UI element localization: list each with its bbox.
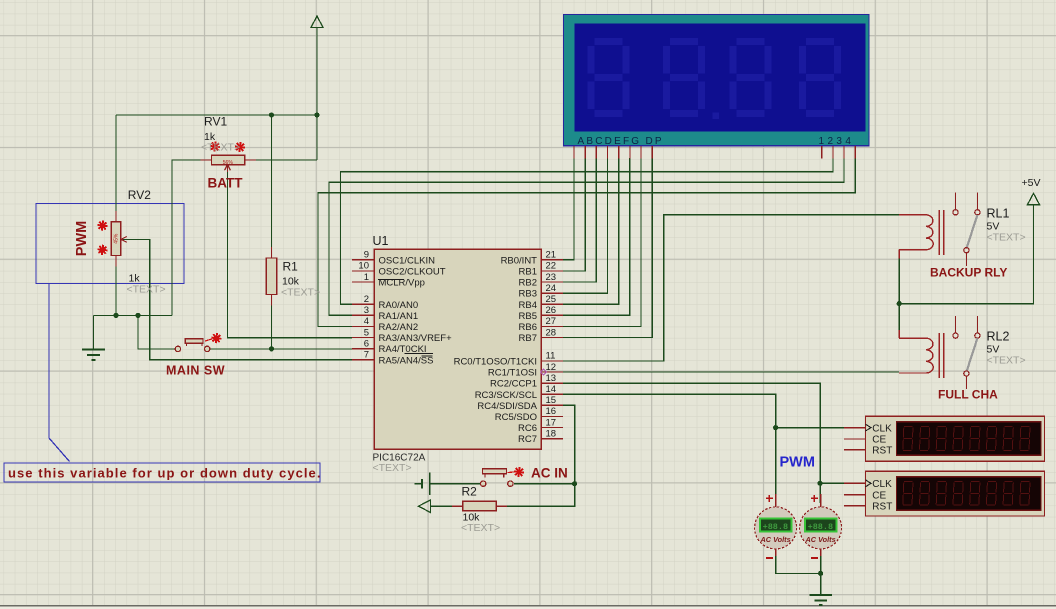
svg-text:<TEXT>: <TEXT> — [987, 231, 1026, 243]
wire RV2 top lead — [115, 115, 117, 213]
pin 1 (MCLR/Vpp) — [352, 272, 425, 289]
wire battery left stub — [415, 483, 422, 485]
pin 10 (OSC2/CLKOUT) — [352, 261, 446, 278]
T0CKI underline — [405, 353, 434, 355]
power terminal +5V — [1028, 193, 1040, 204]
wire switch drop to MAIN SW — [138, 315, 175, 349]
display ghost digit 2 — [667, 42, 702, 114]
pin 5 (RA3/AN3/VREF+) — [352, 327, 452, 344]
counter 2 ghost digit 6 — [986, 482, 996, 506]
svg-text:RA2/AN2: RA2/AN2 — [379, 322, 419, 333]
display ghost digit 3 — [733, 42, 768, 114]
svg-text:AC Volts: AC Volts — [805, 535, 836, 544]
svg-text:RV1: RV1 — [204, 115, 227, 129]
wire RV1 right link — [255, 159, 317, 161]
battery cell (AC source) — [422, 473, 430, 495]
relay RL2 coil — [899, 330, 933, 373]
display pin digit 1 — [821, 146, 823, 159]
svg-text:MAIN SW: MAIN SW — [166, 364, 225, 378]
svg-text:12: 12 — [546, 362, 557, 373]
svg-text:28: 28 — [546, 327, 557, 338]
display pin segment A — [573, 146, 575, 159]
wire +5V node to RL2 coil top — [898, 304, 900, 331]
pin 6 (RA4/T0CKI) — [352, 338, 427, 355]
switch MAIN SW (push button) — [175, 339, 212, 352]
svg-text:use this variable for up or do: use this variable for up or down duty cy… — [8, 466, 321, 481]
svg-text:7: 7 — [364, 350, 369, 361]
svg-text:<TEXT>: <TEXT> — [461, 522, 500, 534]
counter 1 ghost digit 6 — [986, 427, 996, 451]
wire net RC0 to RL1 coil — [563, 215, 899, 361]
svg-text:6: 6 — [364, 338, 369, 349]
marker RV2 down — [97, 245, 107, 255]
wire net RB0 to display segment A — [563, 158, 574, 260]
potentiometer RV1 — [201, 155, 256, 172]
svg-text:17: 17 — [546, 417, 557, 428]
voltmeter 1 minus sign — [766, 557, 773, 559]
node voltmeter ground junction — [818, 571, 823, 576]
svg-text:RL2: RL2 — [987, 330, 1010, 344]
canvas bottom edge — [0, 606, 1056, 609]
wire ground rail — [94, 314, 173, 316]
svg-text:RB4: RB4 — [519, 300, 537, 311]
pin 26 (RB5) — [519, 305, 563, 322]
svg-text:RB7: RB7 — [519, 333, 537, 344]
wire net RA1 to display digit 3 — [329, 158, 844, 315]
svg-text:RV2: RV2 — [128, 188, 151, 202]
pin 17 (RC6) — [518, 417, 563, 434]
wire top rail net VBATT — [116, 114, 317, 116]
svg-text:21: 21 — [546, 250, 557, 261]
pin 14 (RC3/SCK/SCL) — [475, 384, 563, 401]
relay RL2 common pin — [964, 371, 969, 389]
wire node down to R2 — [505, 484, 575, 507]
svg-text:RST: RST — [872, 501, 892, 512]
wire net RC4 down to AC IN switch — [563, 405, 575, 483]
counter 1 ghost digit 5 — [970, 427, 980, 451]
svg-text:RC2/CCP1: RC2/CCP1 — [490, 379, 537, 390]
counter module 1 body — [866, 416, 1045, 461]
svg-text:<TEXT>: <TEXT> — [281, 287, 320, 299]
svg-text:PWM: PWM — [780, 455, 815, 471]
svg-text:ABCDEFG: ABCDEFG — [578, 136, 642, 147]
wire ground drop (left ground) — [93, 315, 95, 349]
counter 2 ghost digit 5 — [970, 482, 980, 506]
svg-text:1: 1 — [364, 272, 369, 283]
wire RV1 wiper to RA3 — [228, 172, 353, 338]
ground (bottom, under voltmeters) — [809, 595, 832, 605]
display glass — [575, 24, 866, 132]
svg-text:CE: CE — [872, 435, 886, 446]
svg-text:16: 16 — [546, 406, 557, 417]
pin 9 (OSC1/CLKIN) — [352, 250, 435, 267]
svg-text:45%: 45% — [114, 233, 120, 244]
relay RL1 coil — [899, 215, 933, 258]
marker RV1 down — [235, 142, 245, 152]
voltmeter 1 plus sign — [766, 495, 773, 502]
marker MAIN SW actuator — [211, 333, 221, 343]
svg-text:RC3/SCK/SCL: RC3/SCK/SCL — [475, 390, 537, 401]
counter 2 pin CE — [844, 490, 887, 501]
node AC IN / RC4 junction — [572, 481, 577, 486]
pin 18 (RC7) — [518, 428, 563, 445]
counter 2 ghost digit 3 — [936, 482, 946, 506]
svg-text:14: 14 — [546, 384, 557, 395]
svg-text:RB6: RB6 — [519, 322, 537, 333]
display pin segment C — [595, 146, 597, 159]
wire RC2 down to AC voltmeter 2 — [819, 483, 821, 503]
pin 3 (RA1/AN1) — [352, 305, 418, 322]
wire RL1 coil bottom to +5V node — [898, 258, 900, 304]
svg-text:13: 13 — [546, 373, 557, 384]
pin 16 (RC5/SDO) — [495, 406, 563, 423]
display pin segment F — [629, 146, 631, 159]
svg-text:PWM: PWM — [74, 221, 90, 256]
wire net RB7 to display segment DP — [563, 158, 652, 337]
wire MAIN SW to RA4 — [210, 348, 352, 350]
wire RC3 down to AC voltmeter 1 — [775, 428, 777, 503]
display pin segment G — [640, 146, 642, 159]
wire ground drop (bottom) — [820, 573, 822, 594]
relay RL2 core — [939, 333, 944, 378]
pin 22 (RB1) — [519, 261, 563, 278]
SS overline — [422, 355, 433, 357]
svg-text:OSC1/CLKIN: OSC1/CLKIN — [379, 255, 436, 266]
wire R2 left lead to terminal — [431, 505, 454, 507]
counter 1 pin CE — [844, 435, 887, 446]
svg-text:<TEXT>: <TEXT> — [987, 355, 1026, 367]
svg-text:4: 4 — [364, 316, 369, 327]
svg-text:RA0/AN0: RA0/AN0 — [379, 300, 419, 311]
ground (left, near MAIN SW) — [82, 350, 105, 361]
svg-text:2: 2 — [364, 294, 369, 305]
relay RL2 armature — [967, 338, 978, 371]
pin 28 (RB7) — [519, 327, 563, 344]
counter module 1 display — [897, 422, 1042, 456]
wire RV2 wiper to RA5 — [122, 239, 352, 359]
probe marker at pin 12 — [540, 369, 546, 375]
svg-text:3: 3 — [364, 305, 369, 316]
svg-text:RA5/AN4/SS: RA5/AN4/SS — [379, 355, 434, 366]
svg-text:RST: RST — [872, 446, 892, 457]
node counter2 CLK junction — [818, 481, 823, 486]
node counter1 CLK junction — [773, 425, 778, 430]
wire battery to AC IN switch — [431, 483, 481, 485]
switch AC IN (push button) — [481, 469, 515, 487]
display pin digit 2 — [832, 146, 834, 159]
counter 2 pin RST — [844, 501, 892, 512]
svg-text:25: 25 — [546, 294, 557, 305]
wire net RB6 to display segment G — [563, 158, 641, 326]
svg-text:AC IN: AC IN — [531, 466, 568, 481]
pin 24 (RB3) — [519, 283, 563, 300]
AC voltmeter 2 — [800, 494, 842, 556]
pin 11 (RC0/T1OSO/T1CKI) — [454, 351, 563, 368]
svg-text:RB2: RB2 — [519, 278, 537, 289]
svg-text:AC Volts: AC Volts — [760, 535, 791, 544]
counter 2 pin CLK — [844, 479, 892, 490]
counter module 2 body — [866, 471, 1045, 516]
wire RV1 left terminal drop — [172, 160, 201, 315]
MCLR overline — [378, 278, 404, 280]
counter 2 ghost digit 7 — [1003, 482, 1013, 506]
pin 27 (RB6) — [519, 316, 563, 333]
svg-text:<TEXT>: <TEXT> — [373, 462, 412, 474]
svg-text:RA1/AN1: RA1/AN1 — [379, 311, 419, 322]
node battery terminal junction — [314, 112, 319, 117]
resistor R2 — [452, 501, 507, 511]
counter 2 ghost digit 4 — [953, 482, 963, 506]
pin 23 (RB2) — [519, 272, 563, 289]
AC voltmeter 1 — [755, 494, 797, 556]
svg-text:+5V: +5V — [1022, 177, 1041, 189]
display ghost decimal point — [713, 113, 720, 120]
svg-text:RC5/SDO: RC5/SDO — [495, 412, 537, 423]
node RV2 bottom junction — [113, 313, 118, 318]
svg-text:RB1: RB1 — [519, 267, 537, 278]
wire net RB2 to display segment C — [563, 158, 596, 282]
counter 1 ghost digit 3 — [936, 427, 946, 451]
svg-text:1234: 1234 — [819, 136, 855, 147]
annotation text box — [4, 463, 320, 482]
node R1 top junction — [269, 112, 274, 117]
display pin segment DP — [651, 146, 653, 159]
wire net RC1 to RL2 coil — [563, 371, 899, 373]
wire net RB3 to display segment D — [563, 158, 608, 293]
wire net RB4 to display segment E — [563, 158, 619, 304]
pin 4 (RA2/AN2) — [352, 316, 418, 333]
node R1 bottom / RA4 junction — [269, 346, 274, 351]
svg-text:5: 5 — [364, 327, 369, 338]
wire voltmeter grounds — [776, 553, 821, 573]
wire R1 bottom lead — [271, 304, 273, 349]
relay RL2 contacts — [953, 316, 980, 338]
svg-text:RC0/T1OSO/T1CKI: RC0/T1OSO/T1CKI — [454, 357, 537, 368]
wire R1 top lead — [271, 115, 273, 249]
pin 25 (RB4) — [519, 294, 563, 311]
annotation leader line — [49, 284, 70, 462]
svg-text:BACKUP RLY: BACKUP RLY — [930, 266, 1007, 280]
potentiometer RV2 — [111, 211, 127, 267]
wire RV2 bottom lead — [115, 264, 117, 315]
wire +5V rail to relays — [899, 205, 1033, 304]
voltmeter 2 plus sign — [811, 495, 818, 502]
wire AC IN switch to node — [514, 483, 575, 485]
counter 2 ghost digit 8 — [1020, 482, 1030, 506]
svg-text:+88.8: +88.8 — [763, 522, 789, 532]
pin 15 (RC4/SDI/SDA) — [477, 395, 563, 412]
svg-text:15: 15 — [546, 395, 557, 406]
power terminal (input arrow, top left) — [311, 16, 323, 27]
svg-text:RC6: RC6 — [518, 423, 537, 434]
wire net RA0 to display digit 2 — [341, 158, 833, 304]
input terminal (left arrow at R2) — [419, 500, 431, 513]
svg-text:CLK: CLK — [872, 479, 892, 490]
svg-text:DP: DP — [646, 136, 664, 147]
marker RV2 up — [97, 221, 107, 231]
svg-text:FULL CHA: FULL CHA — [938, 388, 998, 402]
svg-text:RB0/INT: RB0/INT — [501, 255, 538, 266]
svg-text:+88.8: +88.8 — [808, 522, 834, 532]
display ghost digit 4 — [803, 42, 838, 114]
svg-text:R1: R1 — [283, 260, 299, 274]
node +5V relay junction — [897, 301, 902, 306]
wire net RC3 / PWM to counter 1 CLK — [563, 394, 866, 427]
counter 1 ghost digit 4 — [953, 427, 963, 451]
resistor R1 — [266, 247, 277, 306]
svg-text:R2: R2 — [462, 485, 478, 499]
pin 12 (RC1/T1OSI) — [488, 362, 563, 379]
counter 2 ghost digit 1 — [903, 482, 913, 506]
svg-text:23: 23 — [546, 272, 557, 283]
wire net RA2 to display digit 4 — [318, 158, 855, 326]
display pin segment D — [607, 146, 609, 159]
counter module 2 display — [897, 477, 1042, 511]
display pin segment E — [618, 146, 620, 159]
svg-text:9: 9 — [364, 250, 369, 261]
marker RV1 up — [210, 141, 220, 151]
wire net RC2 / PWM to counter 2 CLK — [563, 383, 866, 483]
svg-text:RC4/SDI/SDA: RC4/SDI/SDA — [477, 401, 537, 412]
voltmeter 2 minus sign — [811, 557, 818, 559]
display pin digit 4 — [854, 146, 856, 159]
annotation rectangle around RV2 — [36, 204, 184, 284]
svg-text:RB3: RB3 — [519, 289, 537, 300]
relay RL1 core — [939, 210, 944, 255]
svg-text:BATT: BATT — [208, 176, 244, 191]
svg-text:RA3/AN3/VREF+: RA3/AN3/VREF+ — [379, 333, 453, 344]
counter 1 ghost digit 7 — [1003, 427, 1013, 451]
svg-text:RL1: RL1 — [987, 206, 1010, 220]
svg-text:26: 26 — [546, 305, 557, 316]
relay RL1 armature — [967, 215, 978, 248]
counter 1 ghost digit 8 — [1020, 427, 1030, 451]
op-amp/microcontroller U1 PIC16C72A body — [374, 249, 541, 449]
wire battery terminal drop — [316, 27, 318, 160]
svg-text:CLK: CLK — [872, 423, 892, 434]
relay RL1 common pin — [964, 248, 969, 266]
pin 2 (RA0/AN0) — [352, 294, 418, 311]
relay RL1 contacts — [953, 193, 980, 215]
svg-text:OSC2/CLKOUT: OSC2/CLKOUT — [379, 267, 446, 278]
marker AC IN actuator — [514, 467, 524, 477]
svg-text:RB5: RB5 — [519, 311, 537, 322]
svg-text:<TEXT>: <TEXT> — [127, 284, 166, 296]
7-segment display module (4 digit) frame — [564, 15, 870, 146]
display pin segment B — [584, 146, 586, 159]
counter 1 pin CLK — [844, 423, 892, 434]
pin 21 (RB0/INT) — [501, 250, 563, 267]
wire net RB5 to display segment F — [563, 158, 630, 315]
pin 13 (RC2/CCP1) — [490, 373, 563, 390]
svg-text:24: 24 — [546, 283, 557, 294]
counter 1 pin RST — [844, 446, 892, 457]
svg-text:RC1/T1OSI: RC1/T1OSI — [488, 368, 537, 379]
svg-text:22: 22 — [546, 261, 557, 272]
counter 1 ghost digit 1 — [903, 427, 913, 451]
svg-text:RC7: RC7 — [518, 434, 537, 445]
wire net RB1 to display segment B — [563, 158, 585, 271]
svg-text:10: 10 — [358, 261, 369, 272]
svg-text:U1: U1 — [373, 234, 389, 248]
svg-text:<TEXT>: <TEXT> — [201, 142, 240, 154]
counter 2 ghost digit 2 — [920, 482, 930, 506]
node switch drop junction — [135, 313, 140, 318]
pin 7 (RA5/AN4/SS) — [352, 350, 433, 367]
svg-text:CE: CE — [872, 490, 886, 501]
display pin digit 3 — [843, 146, 845, 159]
counter 1 ghost digit 2 — [920, 427, 930, 451]
svg-text:27: 27 — [546, 316, 557, 327]
display ghost digit 1 — [591, 42, 626, 114]
svg-text:11: 11 — [546, 351, 556, 362]
svg-text:18: 18 — [546, 428, 557, 439]
